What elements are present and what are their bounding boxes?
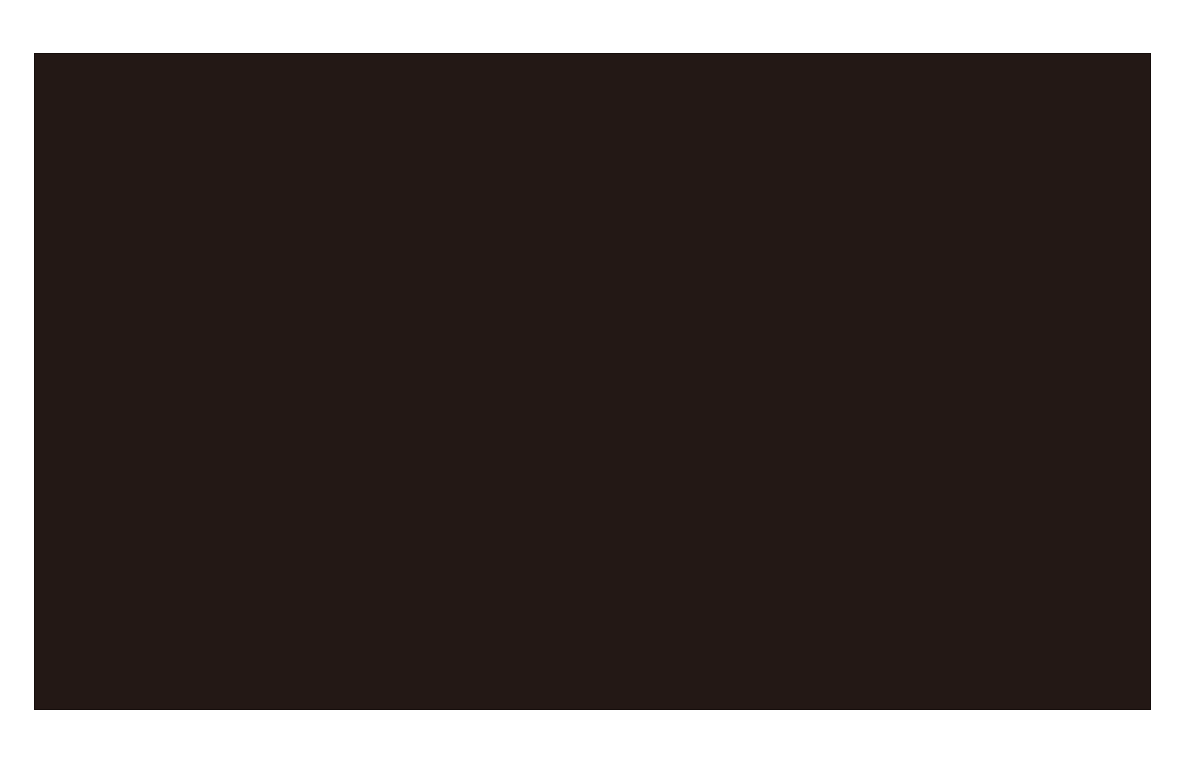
dark full-bleed photo block bbox=[34, 53, 1151, 710]
